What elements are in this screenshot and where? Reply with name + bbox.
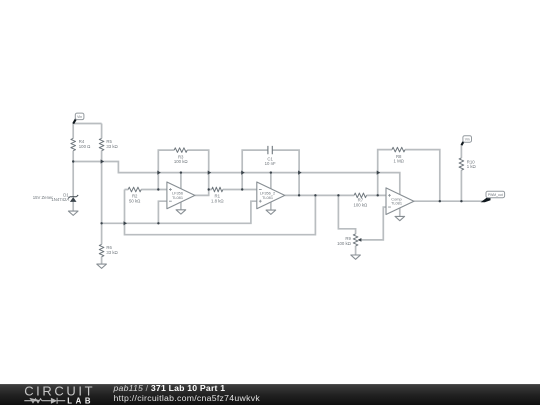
- svg-text:LAB: LAB: [67, 397, 94, 405]
- svg-text:TL081: TL081: [262, 195, 273, 200]
- svg-text:10 nF: 10 nF: [265, 161, 276, 166]
- svg-text:15V Zener: 15V Zener: [33, 195, 54, 200]
- svg-text:100 kΩ: 100 kΩ: [174, 159, 189, 164]
- svg-text:100 kΩ: 100 kΩ: [354, 202, 369, 207]
- svg-text:1 MΩ: 1 MΩ: [394, 159, 405, 164]
- svg-text:PWM_out: PWM_out: [488, 193, 503, 197]
- svg-text:TL081: TL081: [391, 201, 402, 206]
- svg-text:Vin: Vin: [465, 138, 470, 142]
- svg-text:50 kΩ: 50 kΩ: [129, 198, 141, 203]
- svg-text:TL081: TL081: [172, 195, 183, 200]
- svg-text:1 kΩ: 1 kΩ: [467, 164, 477, 169]
- svg-text:1.8 kΩ: 1.8 kΩ: [211, 198, 224, 203]
- svg-text:1N4742A: 1N4742A: [51, 197, 69, 202]
- svg-text:100 Ω: 100 Ω: [79, 144, 91, 149]
- svg-text:33 kΩ: 33 kΩ: [106, 144, 118, 149]
- svg-text:Vin: Vin: [77, 115, 82, 119]
- svg-text:100 kΩ: 100 kΩ: [337, 241, 352, 246]
- svg-text:33 kΩ: 33 kΩ: [106, 250, 118, 255]
